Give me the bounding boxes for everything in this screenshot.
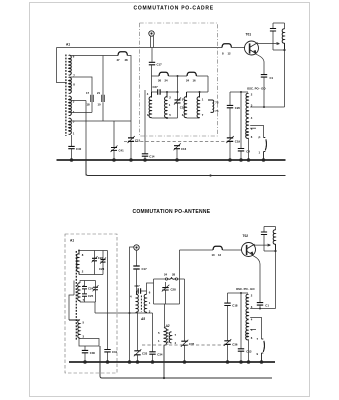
junction (228, 158, 232, 162)
capacitor C30 (82, 346, 88, 362)
capacitor C34 (149, 313, 155, 362)
wire base line (57, 48, 245, 83)
junction (260, 360, 264, 364)
wire tap3 (250, 308, 275, 310)
wire tap6 (70, 56, 131, 122)
svg-text:C27: C27 (153, 85, 159, 89)
wire (136, 269, 138, 291)
transformer T1 left cell (152, 76, 178, 92)
capacitor C17 (149, 62, 155, 65)
frame winding W1 (76, 251, 79, 341)
junction (70, 158, 74, 162)
svg-text:12: 12 (228, 52, 232, 56)
junction (83, 360, 87, 364)
wire collector (254, 244, 270, 246)
svg-text:COMMUTATION PO-CADRE: COMMUTATION PO-CADRE (134, 6, 214, 12)
svg-text:C34: C34 (157, 352, 163, 356)
svg-text:C40: C40 (76, 147, 82, 151)
wire (130, 283, 154, 313)
frame winding W3 (69, 320, 80, 339)
oscillator coil L8 (246, 93, 249, 138)
tank circuit L11 C5 (261, 227, 276, 252)
inductor L6 (208, 100, 214, 112)
wire emitter (252, 255, 260, 302)
junction (240, 91, 242, 93)
inductor L10 (213, 246, 222, 250)
svg-text:17: 17 (86, 91, 90, 95)
wire tap3 (70, 101, 86, 176)
svg-text:16: 16 (193, 79, 197, 83)
capacitor C4b (238, 92, 244, 160)
svg-text:C27: C27 (135, 284, 141, 288)
winding T1b (165, 92, 167, 118)
wire coil bottom (248, 138, 250, 160)
capacitor C14 (142, 90, 148, 160)
wire tap5 (250, 127, 256, 129)
junction (274, 250, 276, 252)
svg-text:47: 47 (117, 58, 121, 62)
junction (143, 158, 147, 162)
junction (183, 360, 187, 364)
switch S1 (264, 138, 267, 161)
switch S2 (262, 339, 265, 362)
svg-text:C20: C20 (235, 106, 241, 110)
svg-text:A1: A1 (66, 43, 70, 47)
svg-text:OSC. PO - GO: OSC. PO - GO (247, 87, 266, 91)
junction (283, 49, 285, 51)
svg-text:C16: C16 (181, 147, 187, 151)
capacitor C19 trimmer (226, 136, 234, 160)
junction (166, 117, 168, 119)
wire (163, 346, 165, 379)
wire tap3 (250, 106, 284, 108)
svg-text:28: 28 (172, 273, 176, 277)
capacitor C27 (137, 288, 147, 294)
junction (177, 75, 179, 77)
capacitor C22 trimmer (92, 251, 98, 275)
junction (163, 377, 165, 379)
svg-text:C33: C33 (142, 352, 148, 356)
svg-text:21: 21 (97, 91, 101, 95)
tank circuit L7 C2 (270, 23, 285, 50)
capacitor C40 (68, 135, 74, 160)
inductor L9 link (168, 277, 176, 279)
capacitor C24 (82, 281, 87, 294)
svg-text:24: 24 (186, 79, 190, 83)
capacitor C31 (104, 350, 110, 363)
junction (78, 250, 80, 252)
frame box A1 dashed (65, 234, 117, 373)
wire rail (180, 250, 242, 279)
svg-text:C19: C19 (235, 140, 241, 144)
inductor L5 (187, 72, 196, 76)
svg-text:C18: C18 (232, 303, 238, 307)
svg-text:T02: T02 (243, 234, 249, 238)
winding T2a (184, 92, 186, 118)
inductor L4 (159, 72, 168, 76)
junction (166, 91, 168, 93)
junction (129, 158, 133, 162)
wire tap4 (250, 318, 261, 340)
transistor T02 (242, 243, 256, 257)
transformer T3 secondary (144, 294, 146, 313)
frame winding W2 (69, 281, 130, 321)
transistor T01 (245, 41, 259, 55)
junction (177, 91, 179, 93)
coax jack J1 (149, 31, 154, 62)
svg-text:C17: C17 (157, 63, 163, 67)
junction (262, 158, 266, 162)
capacitor C27a (158, 89, 160, 95)
capacitor C13 (238, 293, 244, 362)
capacitor C1b (257, 303, 263, 306)
wire (230, 92, 248, 105)
svg-text:C41: C41 (119, 149, 125, 153)
wire riser (163, 346, 165, 379)
svg-text:C24: C24 (88, 286, 94, 290)
capacitor C15 trimmer (128, 121, 135, 160)
svg-text:C17: C17 (142, 267, 148, 271)
wire tap4 (70, 111, 92, 113)
wire tap4 (250, 126, 263, 138)
svg-text:T01: T01 (246, 33, 252, 37)
wire tap7 (70, 77, 92, 95)
winding T2b (197, 92, 199, 118)
junction (106, 360, 110, 364)
junction (199, 91, 201, 93)
wire coil bottom (248, 340, 250, 363)
svg-text:C30: C30 (90, 351, 96, 355)
wire (152, 117, 178, 119)
svg-text:10: 10 (98, 103, 102, 107)
wire (275, 251, 277, 309)
terminal (165, 278, 167, 280)
svg-text:C25: C25 (88, 294, 94, 298)
wire (284, 50, 286, 107)
junction (240, 292, 242, 294)
wire tap5 (70, 102, 131, 121)
svg-text:10: 10 (212, 253, 216, 257)
core (140, 296, 142, 312)
ground bus bottom (69, 361, 275, 363)
svg-text:A1: A1 (70, 239, 74, 243)
svg-text:C23: C23 (99, 267, 105, 271)
winding W2 (78, 283, 80, 302)
junction (175, 158, 179, 162)
svg-text:P: P (259, 136, 261, 140)
wire (263, 77, 265, 107)
junction (226, 360, 230, 364)
capacitor C23 trimmer (100, 251, 106, 275)
capacitor C25 (82, 294, 87, 302)
transformer T2 left cell (187, 76, 209, 118)
capacitor C3 trimmer (91, 95, 93, 113)
svg-text:12: 12 (218, 253, 222, 257)
junction (247, 158, 251, 162)
wire emitter (255, 54, 264, 75)
wire return (86, 160, 286, 176)
svg-text:C35: C35 (189, 342, 195, 346)
capacitor C16 trimmer (174, 143, 181, 160)
oscillator coil L12 (246, 294, 249, 340)
capacitor C17b (133, 266, 139, 269)
wire (259, 305, 261, 308)
capacitor C26 trimmer (174, 76, 181, 118)
svg-text:A5: A5 (140, 317, 145, 321)
wire (79, 251, 108, 350)
terminal (175, 278, 177, 280)
junction (247, 360, 251, 364)
ground bus top (57, 159, 286, 161)
wire return (100, 346, 272, 378)
capacitor C18 (224, 303, 230, 341)
transformer T3 primary (136, 291, 138, 313)
junction (259, 308, 261, 310)
capacitor C41 trimmer (111, 121, 118, 160)
svg-text:26: 26 (158, 79, 162, 83)
svg-text:48: 48 (125, 58, 129, 62)
gang link (124, 141, 227, 143)
capacitor C20 (227, 105, 233, 137)
junction (239, 360, 243, 364)
wire (165, 295, 166, 328)
svg-text:24: 24 (165, 79, 169, 83)
antenna jack J2 (130, 245, 140, 362)
inductor L1 cadre winding (66, 55, 71, 137)
capacitor C33 trimmer (134, 313, 142, 362)
junction (136, 360, 140, 364)
inductor L3 (118, 52, 127, 56)
capacitor C4 trimmer (102, 56, 104, 103)
sub box (79, 339, 99, 347)
core (167, 329, 169, 345)
svg-text:18: 18 (87, 103, 91, 107)
gang link (142, 344, 224, 346)
svg-text:C36: C36 (232, 343, 238, 347)
shield box dash-dot (140, 23, 218, 136)
svg-text:76: 76 (215, 109, 219, 113)
winding T1a (149, 92, 151, 118)
wire collector (257, 43, 279, 45)
inductor L2 (222, 44, 231, 48)
junction (209, 174, 211, 176)
wire rail (152, 65, 209, 76)
svg-text:24: 24 (164, 273, 168, 277)
transformer T4 primary (164, 328, 166, 346)
svg-text:C28: C28 (171, 287, 177, 291)
wire (228, 293, 249, 303)
capacitor C35 trimmer (180, 279, 189, 362)
svg-text:OSC. PO - GO: OSC. PO - GO (236, 287, 255, 291)
svg-text:C1: C1 (270, 76, 274, 80)
junction (239, 158, 243, 162)
junction (128, 360, 132, 364)
svg-text:COMMUTATION PO-ANTENNE: COMMUTATION PO-ANTENNE (133, 209, 211, 215)
transformer T4 secondary (169, 332, 171, 343)
svg-text:C31: C31 (112, 350, 118, 354)
wire tap5 (250, 329, 256, 331)
sub box C28 (154, 279, 180, 304)
junction (263, 106, 265, 108)
svg-text:C15: C15 (135, 139, 141, 143)
junction (151, 360, 155, 364)
capacitor C36 trimmer (224, 339, 232, 362)
svg-text:C14: C14 (149, 155, 155, 159)
capacitor C29 trimmer (93, 281, 99, 303)
svg-text:C1: C1 (265, 304, 269, 308)
capacitor C28 trimmer (162, 282, 170, 295)
svg-text:C13: C13 (246, 350, 252, 354)
junction (112, 158, 116, 162)
capacitor C1 (261, 75, 267, 78)
svg-text:78: 78 (215, 101, 219, 105)
junction (129, 312, 131, 314)
